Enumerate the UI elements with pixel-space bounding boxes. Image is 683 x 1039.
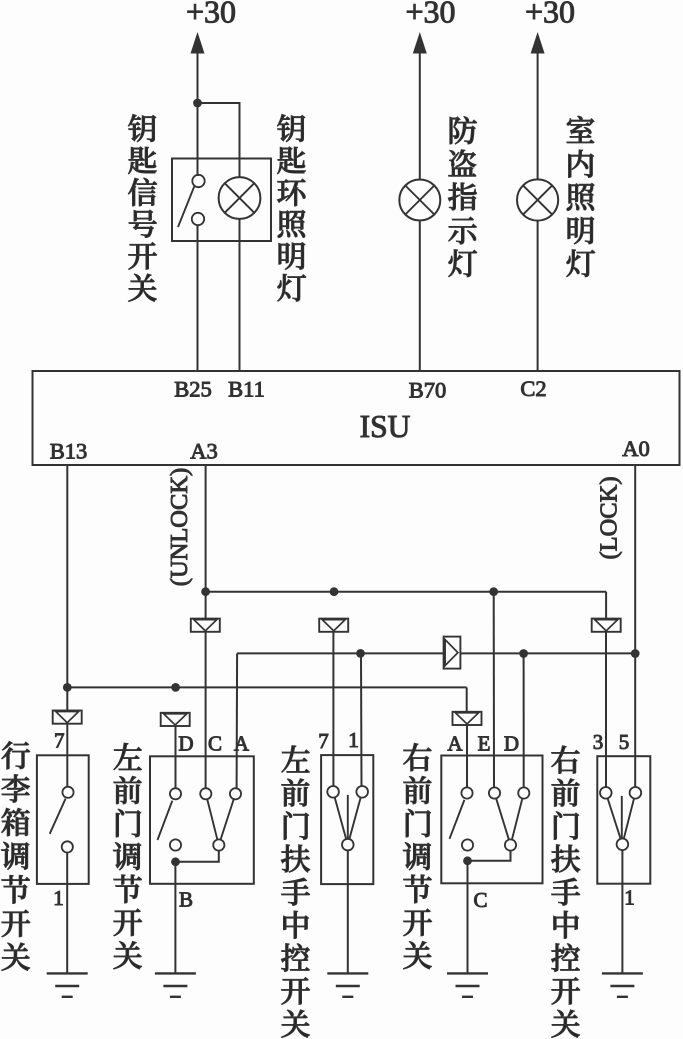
svg-text:+30: +30 [405,0,455,30]
wire switch to ISU pin B25 [197,225,199,371]
switch lever D [158,801,173,840]
svg-text:行李箱调节开关: 行李箱调节开关 [1,731,31,977]
key signal switch lever [178,186,194,227]
svg-text:A0: A0 [622,436,650,461]
ISU control unit box [33,371,680,465]
wire diode D to pin D [175,726,177,788]
svg-text:ISU: ISU [360,409,411,444]
svg-text:C: C [208,732,222,756]
right front door adjust switch box [441,756,542,884]
svg-text:(UNLOCK): (UNLOCK) [166,468,193,586]
left front door adjust switch box [150,756,254,884]
switch lever A [450,800,465,839]
node junction x334 [330,587,339,596]
diode on B13 branch to pin 7 of trunk switch [53,711,82,724]
diode to pin 3 of right armrest switch [592,619,621,632]
trunk adjust switch box [37,755,89,884]
ground trunk switch [47,972,88,974]
power arrow to +30 (middle) [413,32,427,54]
svg-text:D: D [504,732,519,756]
right armrest switch contacts [600,787,612,799]
left armrest central-lock switch box [321,755,373,884]
key signal switch contacts [192,175,204,187]
wire ISU A0 down [634,465,636,787]
wire right armrest switch to ground [621,850,623,972]
power arrow to +30 (left) [191,32,205,54]
armrest switch contacts [327,786,339,798]
svg-text:室内照明灯: 室内照明灯 [566,107,596,284]
switch V contact C to common [207,799,217,840]
node junction x360 [356,649,365,658]
svg-text:E: E [478,732,491,756]
node common junction B [171,857,180,866]
svg-text:B: B [179,887,193,911]
diode in mid bus (pointing right) [444,637,461,669]
trunk switch lever [50,799,66,834]
svg-text:A: A [447,732,463,756]
svg-text:A3: A3 [190,439,218,464]
svg-text:1: 1 [53,886,64,910]
svg-text:B13: B13 [50,439,88,464]
wire trunk switch to ground [66,853,68,973]
bus wire unlock level y592 [206,591,606,593]
svg-text:B70: B70 [409,378,447,403]
diode on A3 branch to pin C [191,619,220,632]
bus wire lower level y687 [67,686,466,688]
wire lamp to ISU pin C2 [537,221,539,371]
wire diode 5 to pin 3 [605,632,607,787]
right armrest central-lock switch box [597,756,650,884]
node junction on A0 wire [631,649,640,658]
switch V contact E to common [496,798,509,839]
trunk switch contacts [62,787,73,798]
wire to pin D of right door switch [523,653,525,787]
lamp interior illumination [517,179,558,220]
svg-text:右前门调节开关: 右前门调节开关 [403,734,433,976]
right armrest switch V lines [608,798,621,839]
switch contacts top row (D C A) [170,788,181,799]
wire diode A to pin C [205,632,207,788]
wire +30 middle vertical [419,51,421,180]
ground left armrest switch [327,972,368,974]
right armrest switch actuator line [621,796,623,838]
svg-text:D: D [178,732,193,756]
diode to pin A of right door switch [453,712,482,725]
wire to ground (C) [467,861,469,973]
wire lamp to ISU pin B70 [419,221,421,372]
diode to pin D of left door switch [161,713,190,726]
svg-text:5: 5 [619,730,630,754]
svg-text:1: 1 [624,885,635,909]
ground right armrest switch [602,972,643,974]
bus wire mid level y653 [237,652,635,654]
wire bus to pin E of right door switch [493,592,495,788]
switch contacts top row (A E D) [461,787,472,798]
wire corner down to pin A of left door switch [236,653,239,788]
svg-text:C2: C2 [520,376,546,401]
wire diode 1 to pin 7 [66,723,68,786]
switch contacts bottom row [462,839,473,850]
ground right door switch [447,972,488,974]
node junction x523 [519,649,528,658]
svg-text:(LOCK): (LOCK) [596,476,623,559]
svg-text:7: 7 [318,729,329,753]
svg-text:B25: B25 [174,377,212,402]
wire corner down to diode 4 [466,687,468,711]
wire ISU B13 down [66,465,68,711]
svg-text:B11: B11 [228,377,265,402]
wire armrest switch to ground [347,851,349,973]
svg-text:+30: +30 [525,0,575,30]
wire to pin 1 of left armrest switch [360,653,363,786]
wire from junction to lamp branch [198,103,240,178]
svg-text:右前门扶手中控开关: 右前门扶手中控开关 [551,736,581,1039]
wire corner down to diode 5 [605,592,607,619]
switch V contact D to common [512,798,523,839]
armrest switch actuator line [347,795,349,839]
svg-text:3: 3 [593,730,604,754]
wire +30 right vertical [537,51,539,180]
svg-text:左前门扶手中控开关: 左前门扶手中控开关 [281,736,311,1039]
lamp anti-theft indicator [399,180,440,221]
svg-text:钥匙信号开关: 钥匙信号开关 [128,105,158,309]
wire to ground (B) [174,862,176,973]
svg-text:钥匙环照明灯: 钥匙环照明灯 [277,105,307,309]
node A3 junction [201,587,210,596]
node junction x175 [171,683,180,692]
wire diode 4 to pin A [466,726,468,788]
node junction x494 [489,587,498,596]
svg-text:+30: +30 [186,0,236,30]
power arrow to +30 (right) [531,32,545,54]
lamp key-ring illumination [219,177,261,219]
svg-text:7: 7 [54,729,65,753]
svg-text:C: C [473,888,487,912]
node B13 junction [63,683,72,692]
wire ISU A3 down [205,465,207,619]
diode to pin 7 of left armrest switch [319,619,348,632]
node junction above key switch [193,99,202,108]
node common junction C [463,856,472,865]
svg-text:A: A [234,732,250,756]
key switch/lamp enclosure box [172,159,271,242]
svg-text:防盗指示灯: 防盗指示灯 [448,107,478,284]
switch V contact A to common [221,799,234,840]
svg-text:1: 1 [348,728,359,752]
wire +30 left vertical [197,51,199,176]
ground left door switch [155,972,196,974]
wire diode B to pin 7 [332,632,334,786]
switch contacts bottom row [170,839,181,850]
svg-text:左前门调节开关: 左前门调节开关 [113,734,143,976]
wire lamp to ISU pin B11 [239,219,241,371]
wire common link [176,851,219,862]
armrest switch V lines [335,797,347,839]
wire common link (right) [468,851,511,861]
